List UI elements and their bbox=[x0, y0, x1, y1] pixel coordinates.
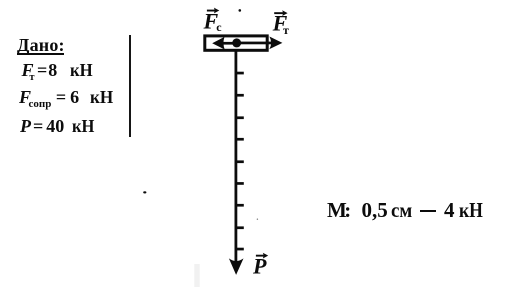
scale tick 9 bbox=[235, 248, 244, 251]
given-data heading "Дано:" bbox=[17, 36, 65, 54]
force F_c arrow shaft bbox=[216, 42, 237, 45]
scale tick 3 bbox=[235, 116, 244, 119]
separator line between given block and figure bbox=[129, 35, 131, 137]
weight vector P arrowhead bbox=[229, 258, 244, 275]
given value line F_т = 8 кН bbox=[22, 61, 95, 83]
given value line P = 40 кН bbox=[20, 117, 97, 135]
ink speck near F_c label bbox=[239, 9, 242, 12]
scale tick 7 bbox=[235, 204, 244, 207]
svg-text:с: с bbox=[216, 20, 222, 34]
force F_т arrowhead bbox=[269, 37, 282, 50]
center node dot bbox=[232, 38, 241, 47]
underline of heading bbox=[17, 53, 65, 55]
scale tick 2 bbox=[235, 94, 244, 97]
scale tick 1 bbox=[235, 72, 244, 75]
scale tick 6 bbox=[235, 182, 244, 185]
faint scan smudge at bottom edge bbox=[194, 264, 199, 287]
force F_т arrow shaft bbox=[237, 42, 273, 45]
scale note "М: 0,5 см — 4 кН" bbox=[327, 200, 347, 221]
given value line F_сопр = 6 кН bbox=[19, 88, 115, 110]
body rectangle bbox=[205, 36, 267, 50]
label F_c vector bar bbox=[207, 8, 219, 14]
weight vector P shaft bbox=[235, 51, 238, 262]
svg-text:т: т bbox=[283, 23, 289, 37]
scale tick 4 bbox=[235, 138, 244, 141]
label F_т vector bar bbox=[274, 10, 287, 16]
force F_c arrowhead bbox=[212, 37, 225, 50]
label P vector bar bbox=[256, 253, 268, 259]
scale tick 8 bbox=[235, 226, 244, 229]
svg-text:P: P bbox=[252, 254, 267, 279]
ink speck left of figure bbox=[143, 191, 146, 193]
ink speck right of ruler bbox=[257, 219, 258, 220]
scale tick 5 bbox=[235, 160, 244, 163]
